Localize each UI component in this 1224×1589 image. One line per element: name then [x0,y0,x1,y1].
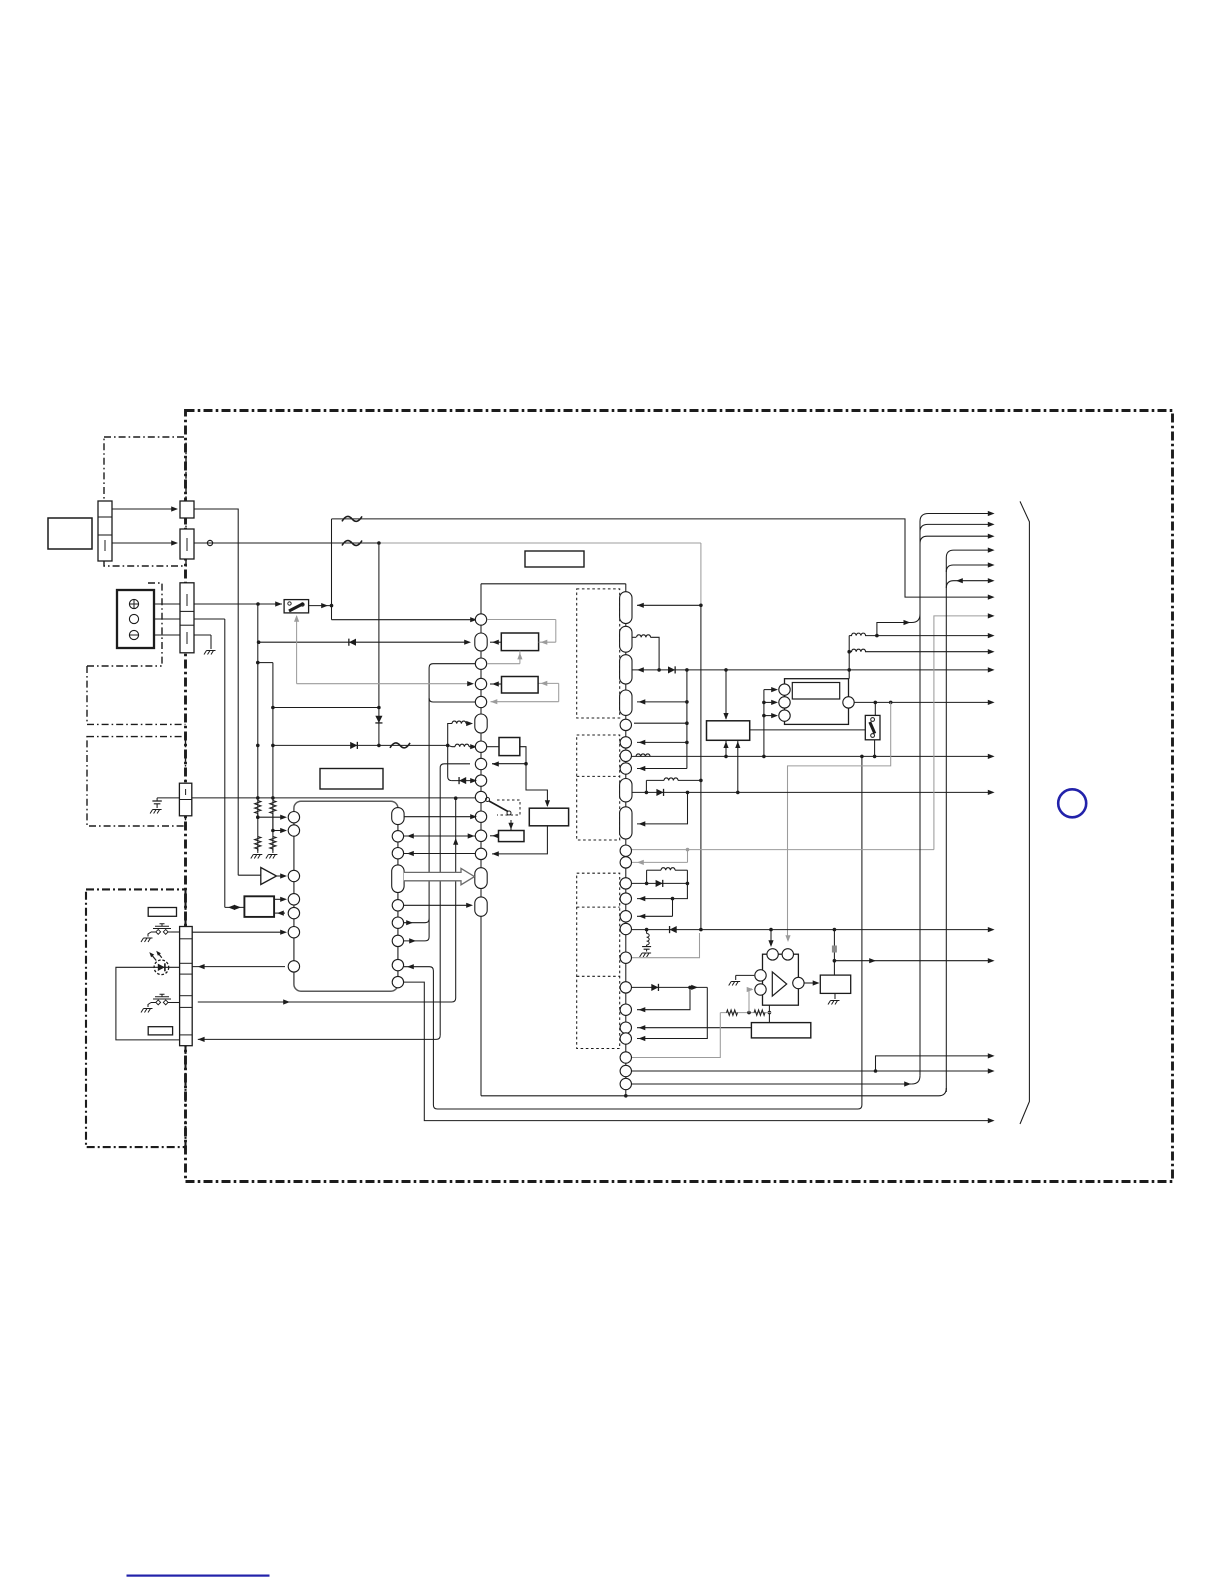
wire B4 to pin13 [492,826,547,854]
coil wire row 635 [849,635,852,637]
IC3 pin 21 [620,1033,631,1044]
node test point TP1 [207,540,212,545]
diode D2 [350,742,357,749]
rail X238 vertical (from CN2) [194,509,238,875]
resistor R2 lower + ground [255,837,261,850]
branch X686 to pill4/pins [686,670,688,769]
revision mark circle (blue) [1058,789,1086,817]
key switch SW2 [151,1002,173,1004]
footer rule (blue) [127,1575,270,1577]
wire y642 (to IC2 pill2) with diode D3 [259,641,469,643]
wire ground stub [194,634,211,636]
block B1 (servo amp) [501,633,538,651]
IC1 left pin 5 [288,907,299,918]
keyboard connector CN4 [180,927,193,1046]
coil L5 bypass [646,870,648,883]
gray wire switch S1 control to pin4 [297,683,472,685]
long wire y670 (focus drive) to row 668 [632,669,991,671]
IC3 pin 17 [620,952,631,963]
diode D5 [668,666,675,673]
LED D8 [154,960,169,975]
wire signal top (gray, to IC2 pill) [194,542,379,544]
wire B1 out to pill2 [490,641,501,643]
IC3 pin 11 [620,845,631,856]
IC2 pin 2 [475,633,487,651]
IC3 pin 3 [620,655,632,684]
block B4 [529,808,568,826]
wire to IC3 pill 1 [637,604,701,606]
wire into B5 top [510,820,512,831]
block B3 [499,738,520,756]
op-amp left pins [755,970,766,981]
IC3 pin 7 [620,750,631,761]
gray wire pin1057 to resistor net [632,1013,720,1058]
IC3 pin 10 [620,807,632,839]
branch pin5 [429,698,475,702]
rail X946 (curves to rows) [946,550,991,1092]
IC3 pin 9 [620,779,632,802]
op-amp block body [763,954,799,1005]
module M2 label box [792,683,839,700]
IC3 pin 4 [620,690,632,715]
rail X456 vertical (reset to SW2 net) [198,798,456,1002]
IC2 pin 4 [475,678,486,689]
coil wire row 652 [848,636,850,670]
IC2 pin 11 [475,811,486,822]
branch to pin916 [672,899,674,917]
wire down to pin1038 [637,987,707,1038]
diode D4 wire into pin9 [452,780,475,782]
module M2 output pin [843,697,854,708]
wire VCC top (to connector row 597) [332,519,992,597]
wire B5 to pin12 [490,835,499,837]
IC1 body (DSP block) [294,801,398,991]
label box B8 [751,1023,810,1038]
IC1 left pin 4 [288,894,299,905]
wire R1 to pin817 [258,816,285,818]
wire y663 from IC2 pin3 [429,664,481,937]
gray resistor net R5 R6 [720,1012,771,1014]
coil L3 from pill2 [632,636,636,638]
ferrite bead FB1 [833,930,835,976]
coil L1 into IC2 pin7 [448,745,455,746]
rail X224 vertical [224,619,226,907]
IC2 pin 14 [475,868,487,889]
gray loop pin1 to B1 [487,619,556,621]
resistor R3 (pullup) [270,801,276,814]
wire M2 top feed [848,670,850,679]
resistor R1 (pullup) [255,801,261,814]
IC3 pin 12 [620,857,631,868]
power connector block J1 [117,590,154,648]
IC3 pin 5 [620,719,631,730]
motor M1 [48,518,92,549]
wire into B6 top [725,670,727,719]
IC1 left pin 6 [288,927,299,938]
branch up to coil L2 into IC2 pill6 [448,724,452,746]
IC2 pin 6 [475,714,487,733]
gray loop pin3 to B1 bottom [487,663,520,665]
IC1 right pin 9 [392,976,403,987]
wire B3 branch down to B4 [526,764,547,806]
terminal mid [129,614,138,623]
IC1 right pin 7 [392,935,403,946]
long wire y929 (audio L) to row 929 [632,929,991,931]
connector CN5 [179,783,191,816]
wire CN1 to CN2 upper [112,508,177,510]
rail X862 down [861,756,863,1105]
wires J1 to CN3 [154,603,180,605]
IC1 right pin 8 [392,959,403,970]
main board outline (dash-dot border) [186,411,1173,1182]
block B2 (focus amp) [502,677,539,694]
wire IC2 pin12 to IC1 pin836 [404,835,476,837]
op-amp output pin [793,977,804,988]
IC1 right pin 1 [392,808,404,825]
wire CN1 to CN2 lower [112,542,177,544]
op-amp triangle [772,972,786,996]
IC3 pin 1 [620,592,632,624]
wire into IC2 pin 1 [332,619,476,621]
wire B6 bottom 2 [737,740,739,792]
connector CN2 lower half [180,529,194,559]
connector CN3 [180,583,194,653]
key switch SW1 [151,931,173,933]
IC1 left pin 7 [288,961,299,972]
wire into IC1 pin922 and pin940 [404,919,430,923]
label box K2 [148,1027,172,1035]
IC2 column body line [480,584,482,1096]
switch S1 (power detect) [284,600,309,613]
rail X272 vertical [272,663,274,851]
rail X331 vertical [331,519,333,620]
wire to row 959 [834,960,991,962]
gray wire pin957 stub [632,933,700,958]
wire B3 to pin8 [492,747,526,764]
IC1 right pin 5 [392,900,403,911]
IC1 left pin 2 [288,825,299,836]
wire power to switch S1 [194,603,282,605]
IC3 pin 23 [620,1065,631,1076]
wire LED cathode loop [116,967,180,1040]
rail X258 vertical [257,604,259,851]
IC2 pin 10 [475,791,486,802]
power-entry sub-board outline (dash-dot) [87,583,186,724]
block B5 [499,831,525,842]
long wire y756 (tracking) to row 755 [632,755,991,757]
diode D1 (vertical) [375,716,382,723]
connector CN1 [98,501,112,561]
wire pin913 to U4 [274,912,285,914]
IC2 pin 12 [475,830,486,841]
IC3 pin 20 [620,1022,631,1033]
IC2 pin 8 [475,758,486,769]
label box K1 [148,908,176,917]
IC1 left pin 3 [288,870,299,881]
gray bus arrow (data bus) [404,868,475,884]
IC1 right pin 2 [392,831,403,842]
terminal plus [129,599,138,608]
IC2 pin 9 [475,775,486,786]
coil L4 [636,754,650,756]
top-left sub-board outline (dash-dot) [104,437,186,566]
IC1 right pin 4 [392,865,404,893]
IC3 pin 2 [620,626,632,652]
diode D7 [670,926,677,933]
label box top center [525,551,584,567]
link wire [258,662,273,664]
capacitor C1 with ground [157,797,179,799]
wire IC2 pin13 to IC1 pin853 [404,853,476,855]
branch to pin898 [637,883,687,898]
wire M2 out to row 702 [855,701,992,703]
long wire y798 (reset line) [192,797,476,799]
keyboard return wire y1039 [198,1035,440,1039]
switch S3 vertical net [874,702,876,715]
gray net to op-amp (from y702) [788,702,891,940]
IC3 pin 8 [620,763,631,774]
branch to pin1009 [637,987,690,1009]
IC1 right pin 6 [392,917,403,928]
wire keyswitch to pin932 [192,931,285,933]
wire y883 with diode D6 [632,882,687,884]
gray feedback net pin5 to box B2 [491,701,559,703]
terminal minus [129,630,138,639]
IC3 pin 6 [620,737,631,748]
rail X441 vertical (pin8 to keyboard) [440,764,470,1036]
vertical rail X701 (supply) [700,543,702,605]
cable break squiggle 3 [390,743,410,748]
op-amp input pins top [767,949,778,960]
IC3 pin 15 [620,911,631,922]
arrow feeds into op-amp [770,930,772,945]
resistor R4 lower + ground [270,837,276,850]
gray wire pin862 to gray net [632,861,688,863]
block B7 (mute) [820,975,850,993]
rail X946 merge from y1095 (IC2 column bottom) [481,1088,946,1096]
buffer amplifier A1 [238,874,261,876]
switch S3 (relay) [865,715,880,739]
block U4 (reset generator) [244,896,274,917]
cable break squiggle 2 [342,541,362,546]
wire pin982 down-around (to row 1119) [404,982,991,1121]
wire pill from pill to pin11 [404,816,475,818]
rail X921 merge from y622 [877,614,920,636]
output connector bracket [1020,501,1029,1124]
IC2 pin 13 [475,848,486,859]
mode switch S2 (dashed) [486,798,490,802]
wire pin905 to IC2 pill15 [404,904,471,906]
IC3 pin 13 [620,878,631,889]
wire y708 to diode rail [273,707,379,709]
module M2 body [785,679,849,725]
wire top link IC2-IC3 [481,583,626,585]
label box IC1 [320,769,383,790]
left middle sub-board outline (dash-dot) [87,737,186,826]
wire y745 (disc detect) [273,744,448,746]
shield dashed box (IC3 sections) [577,589,620,1049]
ground G1 [204,651,216,655]
supply rail X921 (curves to rows) [920,514,991,1076]
ground below B7 [834,993,836,999]
gray wire y849 from pin850 (to row 615) [632,849,934,851]
wire pin1071 to row 1071 and row 1057 [632,1070,991,1072]
wire U4 to pin899 [274,898,285,900]
decoupling coil/cap to ground [646,930,648,934]
wire S1 output to rail X331 [309,605,332,607]
wire pin1027 from block B8 [637,1027,751,1029]
wire B2 out to pin4 [490,683,502,685]
wire y792 from pill9 (to row 792) [633,791,992,793]
rail X448 down to diode D4 [448,745,452,780]
wire B6 bottom to y756 [725,740,727,756]
IC2 pin 1 [475,614,486,625]
IC2 pin 5 [475,696,486,707]
IC3 pin 16 [620,923,631,934]
wire pin966 to LED bar [192,966,285,968]
module M2 (RF amp) vertical feed [763,690,765,757]
wire from IC1 pin965 down-around (y1109) [404,967,862,1109]
IC3 pin 24 [620,1078,631,1089]
IC3 pin 19 [620,1004,631,1015]
wire to pill10 [637,792,688,824]
IC3 column body line [625,584,627,1096]
IC2 pin 7 [475,741,486,752]
IC3 pin 18 [620,982,631,993]
IC3 pin 22 [620,1052,631,1063]
wire pin1084 to supply rail [632,1083,912,1085]
IC1 right pin 3 [392,848,403,859]
wire SW1 to connector [171,931,179,933]
wire B6 right to switch S3 [750,729,866,731]
wire SW2 to connector [171,1002,179,1004]
op-amp out to block B7 [805,982,819,984]
wire y987 net [632,986,707,988]
ground at op-amp input [736,974,755,976]
op-amp block bottom feed [768,1005,770,1022]
wire pin7 to B3 [487,746,499,748]
rail X378 vertical with diode [378,543,380,745]
coil L6 bypass to rail X701 [645,780,647,792]
wire to vertical rail [194,618,225,620]
connector CN2 upper half [180,501,194,518]
cable break squiggle [342,516,362,521]
module M2 input pins [779,684,790,695]
wire LED anode [154,966,180,968]
bidirectional link to box U4 [225,906,245,908]
IC2 pin 15 [475,897,487,916]
bottom-left key/display board outline (dash-dot) [86,889,186,1147]
IC1 left pin 1 [288,812,299,823]
block B6 (driver) [707,721,750,741]
IC3 pin 14 [620,893,631,904]
IC2 pin 3 [475,658,486,669]
wire R3 to pin830 [273,830,285,832]
